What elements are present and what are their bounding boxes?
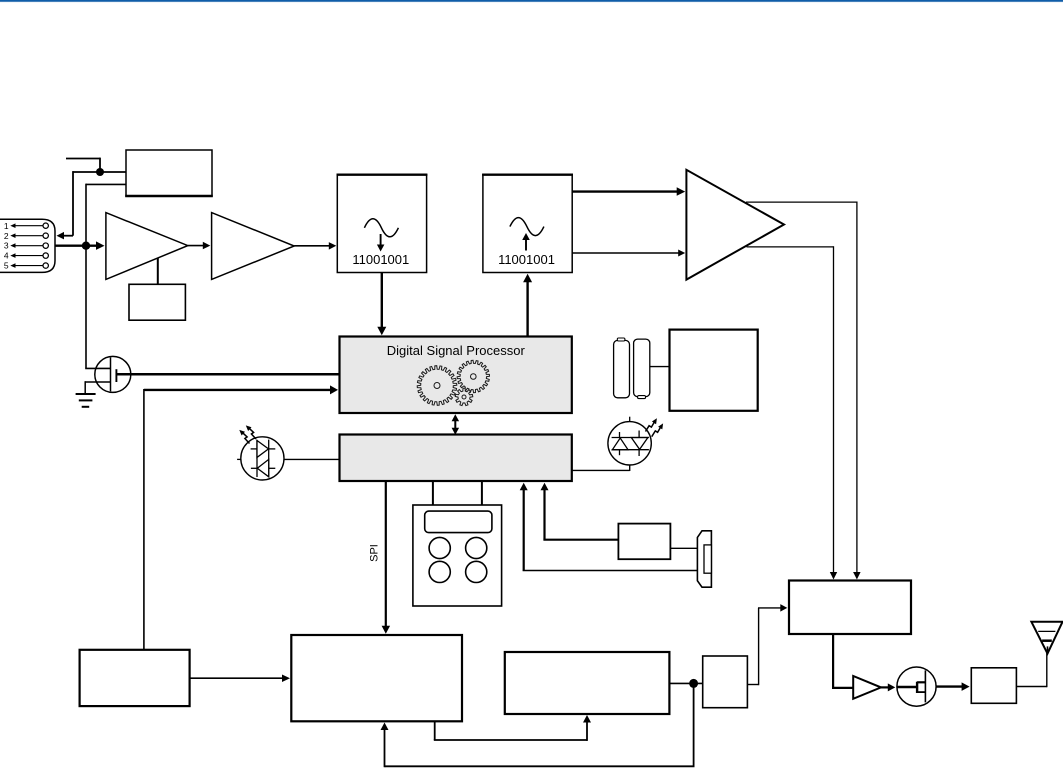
svg-text:11001001: 11001001 (352, 252, 409, 267)
svg-text:5: 5 (4, 261, 9, 271)
svg-text:1: 1 (4, 221, 9, 231)
svg-text:3: 3 (4, 241, 9, 251)
svg-text:4: 4 (4, 251, 9, 261)
svg-text:SPI: SPI (369, 544, 381, 562)
svg-text:2: 2 (4, 231, 9, 241)
svg-text:11001001: 11001001 (498, 252, 555, 267)
svg-text:Digital Signal Processor: Digital Signal Processor (387, 343, 526, 358)
